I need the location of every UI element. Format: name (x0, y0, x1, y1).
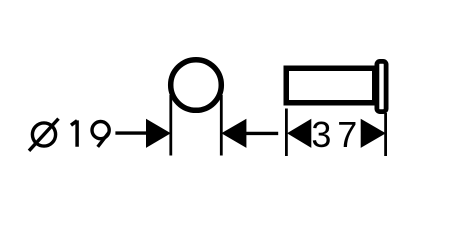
arrowhead pointing right at right extension (361, 119, 386, 148)
wire left extension line (285, 109, 288, 157)
arrowhead pointing left at left extension (287, 119, 311, 148)
dimension text digit 9 (92, 122, 109, 147)
wire right tangent line of hook front view (220, 95, 223, 156)
wire left tangent line of hook front view (169, 95, 172, 156)
wire tail line right of arrow (245, 132, 278, 135)
end flange plate (377, 61, 386, 111)
wire leader line left of arrow (115, 131, 148, 134)
hook circle front view (171, 60, 222, 111)
wire right extension line (384, 113, 387, 156)
arrowhead pointing right at left tangent (146, 119, 171, 148)
cylinder body side view (286, 68, 375, 103)
diameter symbol (29, 119, 59, 151)
arrowhead pointing left at right tangent (221, 119, 246, 148)
svg-text:7: 7 (337, 114, 357, 155)
svg-text:3: 3 (311, 114, 331, 155)
dimension text digit 1 (71, 120, 77, 146)
